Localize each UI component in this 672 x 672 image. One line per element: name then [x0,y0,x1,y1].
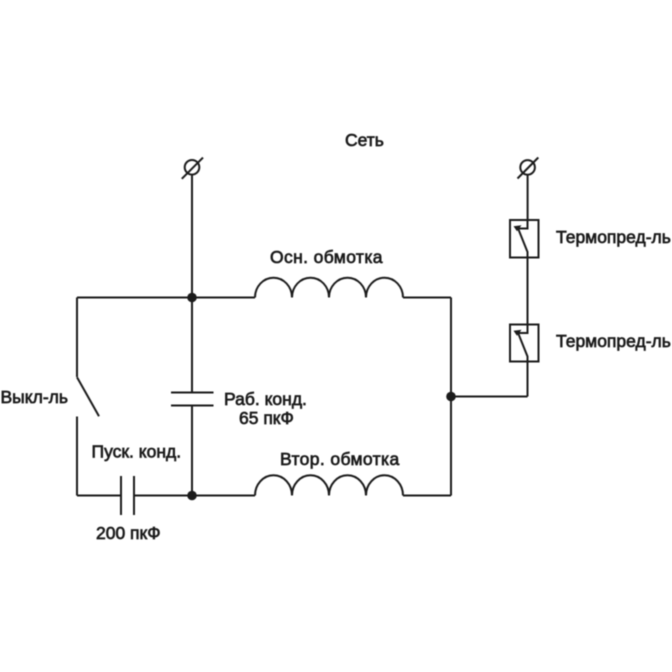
svg-text:Термопред-ль: Термопред-ль [556,331,671,351]
svg-text:65 пкФ: 65 пкФ [239,408,294,428]
svg-text:Втор. обмотка: Втор. обмотка [280,449,400,469]
svg-text:Раб. конд.: Раб. конд. [224,389,307,409]
svg-text:200 пкФ: 200 пкФ [96,523,161,543]
svg-text:Термопред-ль: Термопред-ль [556,227,671,247]
svg-text:Пуск. конд.: Пуск. конд. [92,442,182,462]
svg-text:Выкл-ль: Выкл-ль [1,387,68,407]
svg-text:Осн. обмотка: Осн. обмотка [270,247,383,267]
svg-text:Сеть: Сеть [345,130,384,150]
